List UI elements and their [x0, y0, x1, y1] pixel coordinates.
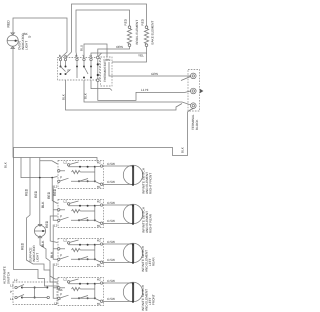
svg-text:H1: H1	[97, 302, 101, 306]
svg-text:L2: L2	[10, 284, 14, 288]
wires row3 to surface unit	[103, 240, 133, 262]
bake element R-BAKE	[140, 18, 154, 46]
svg-text:O.5W: O.5W	[107, 219, 115, 223]
svg-text:RED: RED	[24, 188, 28, 196]
wire left feed bundle row 2	[53, 186, 57, 221]
infinite switch row 3	[54, 239, 104, 268]
wire L1 HI thermostat bottom to terminal block T2	[98, 82, 191, 101]
svg-text:RED: RED	[45, 220, 49, 228]
alternate switch label	[3, 266, 11, 284]
svg-text:L1 HI: L1 HI	[141, 88, 149, 92]
surface unit row 3 label	[141, 246, 156, 272]
svg-text:L1: L1	[10, 297, 14, 301]
svg-text:BLK: BLK	[84, 92, 88, 99]
oven indicator light label	[18, 33, 29, 50]
thermostat box	[97, 53, 113, 86]
svg-text:LIGHT: LIGHT	[25, 41, 29, 50]
wire left feed bundle row 4	[53, 264, 57, 299]
svg-text:BLK: BLK	[41, 240, 45, 247]
oven indicator light	[7, 33, 18, 49]
svg-text:RIGHT REAR: RIGHT REAR	[148, 213, 152, 233]
svg-text:O.5W: O.5W	[107, 258, 115, 262]
wire selector bottom to terminal block T3	[84, 80, 191, 105]
terminal block label	[191, 114, 199, 130]
svg-text:BLU: BLU	[80, 45, 84, 51]
svg-text:BLOCK: BLOCK	[195, 119, 199, 130]
svg-text:P: P	[68, 69, 70, 73]
wire P-line bus to rows	[21, 158, 58, 178]
svg-text:P: P	[60, 293, 62, 297]
svg-text:RED: RED	[21, 242, 25, 250]
wire BLU selector T4 to thermostat box	[84, 44, 107, 58]
wire ORN broil to thermostat	[98, 47, 130, 57]
svg-text:L2: L2	[64, 200, 68, 204]
svg-text:BLK: BLK	[41, 201, 45, 208]
svg-text:RED: RED	[7, 20, 11, 28]
wire RED bus2 down	[26, 158, 58, 283]
svg-text:BAKE ELEMENT: BAKE ELEMENT	[151, 21, 155, 45]
svg-text:L2: L2	[64, 278, 68, 282]
broil element R-BROIL	[123, 18, 139, 46]
infinite switch row 4	[54, 278, 104, 307]
svg-text:RED: RED	[34, 190, 38, 198]
wire surface light riser bus	[39, 158, 41, 225]
svg-text:BLK: BLK	[61, 93, 65, 100]
wire row1 L2 entry	[40, 161, 58, 164]
infinite switch row 1	[54, 161, 104, 190]
wire thermostat top link	[112, 53, 147, 62]
svg-text:THERMOSTAT: THERMOSTAT	[103, 61, 107, 82]
infinite switch row 2	[54, 200, 104, 229]
surface unit row 1 label	[141, 168, 152, 194]
wire top bus to bake element	[72, 4, 147, 52]
svg-text:H1: H1	[97, 224, 101, 228]
alternate switch box	[10, 278, 64, 305]
svg-text:LIGHT: LIGHT	[36, 253, 40, 262]
terminal block	[188, 70, 203, 112]
svg-text:O.5W: O.5W	[107, 279, 115, 283]
svg-text:SWITCH: SWITCH	[7, 272, 11, 284]
svg-text:H2: H2	[97, 200, 101, 204]
surface unit row 1	[123, 165, 142, 185]
wire YEL bake to selector T5	[91, 47, 147, 59]
svg-text:L1: L1	[54, 263, 58, 267]
wire fork into terminal T1	[181, 77, 191, 81]
svg-text:O.5W: O.5W	[107, 180, 115, 184]
wire surface light to row4	[40, 237, 58, 279]
svg-text:H1: H1	[97, 185, 101, 189]
svg-text:YEL: YEL	[138, 54, 144, 58]
svg-text:BLK: BLK	[4, 161, 8, 168]
wire selector bottom to lower bus	[66, 80, 183, 110]
svg-text:O.5W: O.5W	[107, 240, 115, 244]
wire left feed bundle row 3	[53, 225, 57, 260]
svg-text:L2: L2	[64, 239, 68, 243]
svg-text:GRN: GRN	[151, 72, 158, 76]
svg-text:O.5W: O.5W	[107, 162, 115, 166]
svg-text:RIGHT FRONT: RIGHT FRONT	[148, 173, 152, 194]
svg-text:H1: H1	[97, 263, 101, 267]
surface unit row 2	[123, 204, 142, 224]
svg-text:P: P	[60, 176, 62, 180]
svg-text:RED: RED	[140, 18, 144, 25]
svg-text:P: P	[60, 215, 62, 219]
svg-text:L2: L2	[14, 278, 18, 282]
surface unit row 2 label	[141, 207, 152, 233]
svg-text:FRONT: FRONT	[151, 294, 155, 305]
surface unit row 3	[123, 243, 142, 263]
svg-text:L2: L2	[64, 161, 68, 165]
surface unit row 4	[123, 282, 142, 303]
wires row4 to surface unit	[103, 279, 133, 301]
svg-text:H2: H2	[97, 278, 101, 282]
svg-text:O.5W: O.5W	[107, 201, 115, 205]
svg-text:BROIL ELEMENT: BROIL ELEMENT	[135, 20, 139, 45]
svg-text:L1: L1	[54, 302, 58, 306]
svg-text:P: P	[10, 290, 12, 294]
svg-text:L1: L1	[54, 224, 58, 228]
wire top-left horizontal to selector	[13, 18, 67, 58]
wire top bus to broil element	[76, 10, 130, 52]
svg-text:RED: RED	[123, 18, 127, 25]
wires row2 to surface unit	[103, 201, 133, 223]
wires row1 to surface unit	[103, 162, 133, 184]
wire BLK main from terminal block T3 down-left	[14, 109, 194, 287]
svg-text:P: P	[60, 254, 62, 258]
svg-text:H2: H2	[97, 161, 101, 165]
wire row3 left chain down	[50, 216, 57, 243]
svg-text:ORN: ORN	[116, 45, 123, 49]
wire GRN thermostat to terminal block T1	[109, 62, 191, 76]
wire light bus to row1 switch	[13, 158, 97, 162]
oven selector switch box	[58, 58, 100, 81]
svg-text:RED: RED	[47, 191, 51, 199]
svg-text:REAR: REAR	[151, 257, 155, 266]
wire row2 left chain down	[52, 178, 57, 204]
surface indicator light label	[29, 245, 40, 262]
surface unit row 4 label	[141, 285, 156, 311]
svg-text:RED: RED	[53, 188, 57, 196]
svg-text:O.5W: O.5W	[107, 297, 115, 301]
svg-text:H2: H2	[97, 239, 101, 243]
wire light bottom to lower bus	[12, 46, 14, 157]
svg-text:L1: L1	[54, 185, 58, 189]
surface indicator light	[34, 224, 45, 237]
svg-text:BLK: BLK	[181, 146, 185, 153]
